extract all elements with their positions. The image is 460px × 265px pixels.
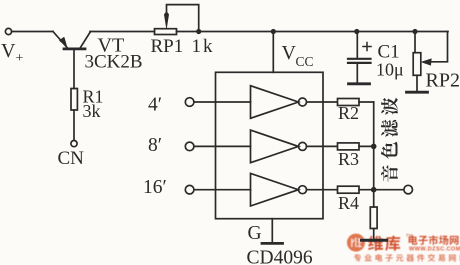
wire rail to RP2 (414, 32, 416, 53)
svg-text:R4: R4 (338, 193, 359, 213)
wire R3 to bus (359, 145, 374, 147)
inversion bubble U1C (299, 186, 307, 194)
inversion bubble U1B (299, 142, 307, 150)
capacitor C1 lead top (356, 32, 358, 58)
RP2 wiper loop (430, 32, 448, 62)
resistor R5 (load) (370, 207, 377, 229)
ground R5 (362, 239, 387, 242)
svg-text:3CK2B: 3CK2B (85, 51, 143, 72)
svg-text:1k: 1k (192, 36, 215, 57)
wire inverter B output (307, 145, 337, 147)
inversion bubble U1A (299, 98, 307, 106)
power rail wire (177, 31, 449, 33)
junction RP1/wiper (196, 29, 201, 34)
svg-text:CD4096: CD4096 (247, 247, 313, 265)
svg-text:RP2: RP2 (426, 69, 460, 91)
ground C1 (349, 82, 370, 85)
svg-text:R3: R3 (338, 149, 359, 169)
svg-text:10μ: 10μ (376, 59, 404, 79)
wire common bus vertical (373, 102, 375, 207)
ground RP2 (407, 91, 428, 94)
junction C1 (354, 29, 359, 34)
svg-text:G: G (248, 223, 262, 244)
resistor R3 (338, 143, 360, 150)
terminal V+ (5, 28, 11, 34)
svg-text:4′: 4′ (148, 94, 162, 115)
inverter U1B (251, 130, 299, 163)
resistor R1 (71, 89, 77, 111)
wire collector to RP1 (90, 31, 155, 33)
svg-text:16′: 16′ (143, 177, 167, 198)
transistor VT 3CK2B (PNP) (53, 32, 91, 89)
resistor R2 (338, 99, 360, 106)
junction bus R3 (371, 144, 377, 150)
svg-text:CC: CC (296, 54, 314, 69)
label Vcc (282, 42, 314, 69)
wire Vcc lead (272, 32, 274, 73)
label V+ (1, 40, 24, 66)
wire inverter A output (307, 101, 337, 103)
C1 plus sign (363, 43, 371, 51)
junction bus R4 (371, 187, 377, 193)
wire R2 to bus (359, 101, 374, 103)
svg-text:+: + (16, 51, 24, 66)
node label: tone filter text (vertical) (381, 98, 398, 182)
RP1 wiper arrow and loop (164, 5, 198, 29)
junction Vcc drop (271, 29, 276, 34)
svg-text:CN: CN (58, 148, 85, 169)
wire input 4' to inverter (194, 101, 251, 103)
svg-text:V: V (1, 40, 16, 62)
svg-text:3k: 3k (83, 101, 101, 121)
wire RP2 to ground (416, 75, 418, 91)
terminal CN (71, 141, 77, 147)
input terminal 16' (185, 185, 194, 194)
junction RP2 (412, 29, 417, 34)
wire input 8' to inverter (194, 145, 251, 147)
wire to output terminal (374, 189, 404, 191)
wire R4 to bus (359, 189, 374, 191)
inverter U1C (251, 173, 299, 206)
wire C1 to ground (356, 64, 358, 83)
svg-text:WWW.DZSC.COM: WWW.DZSC.COM (409, 247, 460, 253)
resistor R4 (338, 186, 360, 193)
wire input 16' to inverter (194, 189, 251, 191)
inverter U1A (251, 86, 299, 119)
wire inverter C output (307, 189, 337, 191)
wire V+ to VT emitter (12, 31, 53, 33)
input terminal 4' (185, 98, 194, 107)
svg-text:R2: R2 (338, 103, 359, 123)
watermark (347, 233, 460, 262)
input terminal 8' (185, 142, 194, 151)
capacitor C1 (348, 59, 371, 63)
output terminal (404, 185, 413, 194)
svg-text:8′: 8′ (148, 135, 162, 156)
svg-text:V: V (282, 42, 297, 64)
wire R1 to CN (73, 110, 75, 140)
op-amp IC U1 CD4096 box (216, 72, 324, 218)
potentiometer RP1 (155, 29, 177, 35)
ground G (262, 242, 283, 245)
svg-text:RP1: RP1 (151, 36, 184, 57)
wire G lead (271, 219, 273, 243)
potentiometer RP2 (413, 53, 421, 76)
wire R5 to ground (373, 229, 375, 239)
